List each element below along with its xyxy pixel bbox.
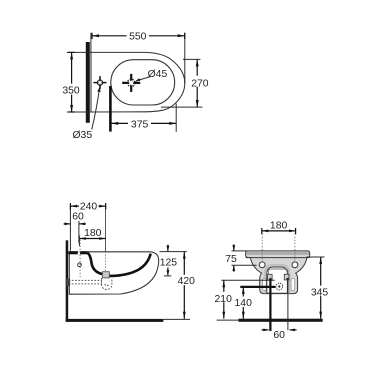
dimension 240 (side view): [70, 201, 105, 251]
60 extension line right (from fixing dot): [287, 279, 289, 330]
svg-text:125: 125: [160, 258, 178, 269]
floor section bar (side view): [66, 319, 164, 322]
right clamp square: [284, 274, 289, 280]
dimension 60 (rear view, bottom): [262, 329, 297, 342]
dimension 125 (side view): [160, 245, 178, 276]
body outline (flange + wings + housing, one silhouette): [246, 251, 310, 294]
floor section bar (rear view): [239, 319, 323, 322]
140 extension line (thick, to drain centre): [240, 286, 275, 288]
svg-text:180: 180: [270, 221, 288, 232]
floor extension line to 420 dim: [163, 318, 190, 320]
dimension 345 (rear view): [311, 257, 331, 319]
drain circle (dashed) with centre dot: [276, 283, 283, 290]
dimension 210 (rear view): [214, 280, 234, 319]
svg-text:Ø45: Ø45: [148, 69, 168, 80]
svg-text:60: 60: [273, 330, 285, 341]
dimension 270 (right): [161, 59, 212, 107]
wall section bar (top view): [86, 42, 90, 123]
wing inner slot left (white groove): [263, 278, 267, 290]
dimension 75 (rear view): [225, 244, 256, 271]
dimension 60 (side view): [64, 212, 86, 243]
dimension 375 (bottom of top view): [110, 86, 176, 132]
svg-text:75: 75: [225, 254, 237, 265]
arch outer shadow band: [265, 265, 289, 293]
flange top shading band: [247, 252, 309, 255]
dimension 180 (side view): [79, 228, 105, 246]
left fixing dot: [269, 278, 271, 280]
svg-text:Ø35: Ø35: [72, 130, 92, 141]
svg-text:420: 420: [178, 276, 196, 287]
wall drain outlet block: [66, 279, 71, 287]
flange bottom edge line: [246, 257, 310, 259]
60 extension line left (thick, from fixing dot): [269, 279, 271, 331]
label O35 with leader: [72, 87, 100, 141]
bowl interior thick section line (front part): [109, 254, 150, 276]
hidden trap pipes (dashed): [69, 278, 112, 290]
bidet outer rim outline (top view): [91, 52, 185, 112]
fixing hole cross mark O35: [94, 76, 107, 89]
inner U channel detail: [268, 269, 288, 275]
right fixing dot: [286, 278, 288, 280]
wing inner slot right (white groove): [291, 278, 295, 290]
svg-text:180: 180: [84, 228, 102, 239]
faucet deck section band (black): [68, 251, 87, 254]
svg-text:550: 550: [129, 31, 147, 42]
dashed extension lines from 180 dim to holes: [261, 234, 263, 262]
svg-text:210: 210: [215, 294, 233, 305]
left mounting hole: [259, 262, 265, 268]
svg-text:60: 60: [72, 212, 84, 223]
drain centre line (dotted): [79, 240, 81, 278]
345 extension line (top): [307, 256, 325, 258]
wall section bar (side view): [66, 240, 69, 321]
overflow hole (side view): [78, 263, 82, 267]
svg-text:375: 375: [131, 120, 149, 131]
drain joint block (grey): [102, 272, 109, 278]
bidet body silhouette (rear view): [246, 251, 310, 294]
label O45 with leader: [135, 69, 167, 82]
bowl bottom extension line (for 125): [164, 275, 171, 277]
faucet centre line (dotted): [105, 203, 107, 251]
dimension 180 (rear view): [262, 221, 296, 234]
dimension 550 (top): [91, 31, 185, 85]
faucet hole cross mark O45: [122, 74, 140, 92]
left clamp square: [268, 274, 273, 280]
svg-text:140: 140: [235, 298, 253, 309]
dimension 140 (rear view): [235, 287, 254, 319]
inner arch cut-out (white): [267, 267, 288, 293]
bidet body profile (side view): [69, 252, 158, 294]
210 extension line (to fixing dots level): [221, 279, 274, 281]
right mounting hole: [292, 262, 298, 268]
bowl interior thick section line (rear part): [88, 253, 103, 274]
dimension 420 (side view): [176, 252, 196, 319]
rim extension line (for 125/420): [160, 251, 187, 253]
floor extension line (left, rear view): [217, 319, 239, 321]
dimension 350 (left): [61, 52, 92, 112]
bidet inner bowl outline (top view): [111, 60, 175, 105]
svg-text:350: 350: [62, 85, 80, 96]
svg-text:345: 345: [311, 287, 329, 298]
svg-text:270: 270: [191, 79, 209, 90]
